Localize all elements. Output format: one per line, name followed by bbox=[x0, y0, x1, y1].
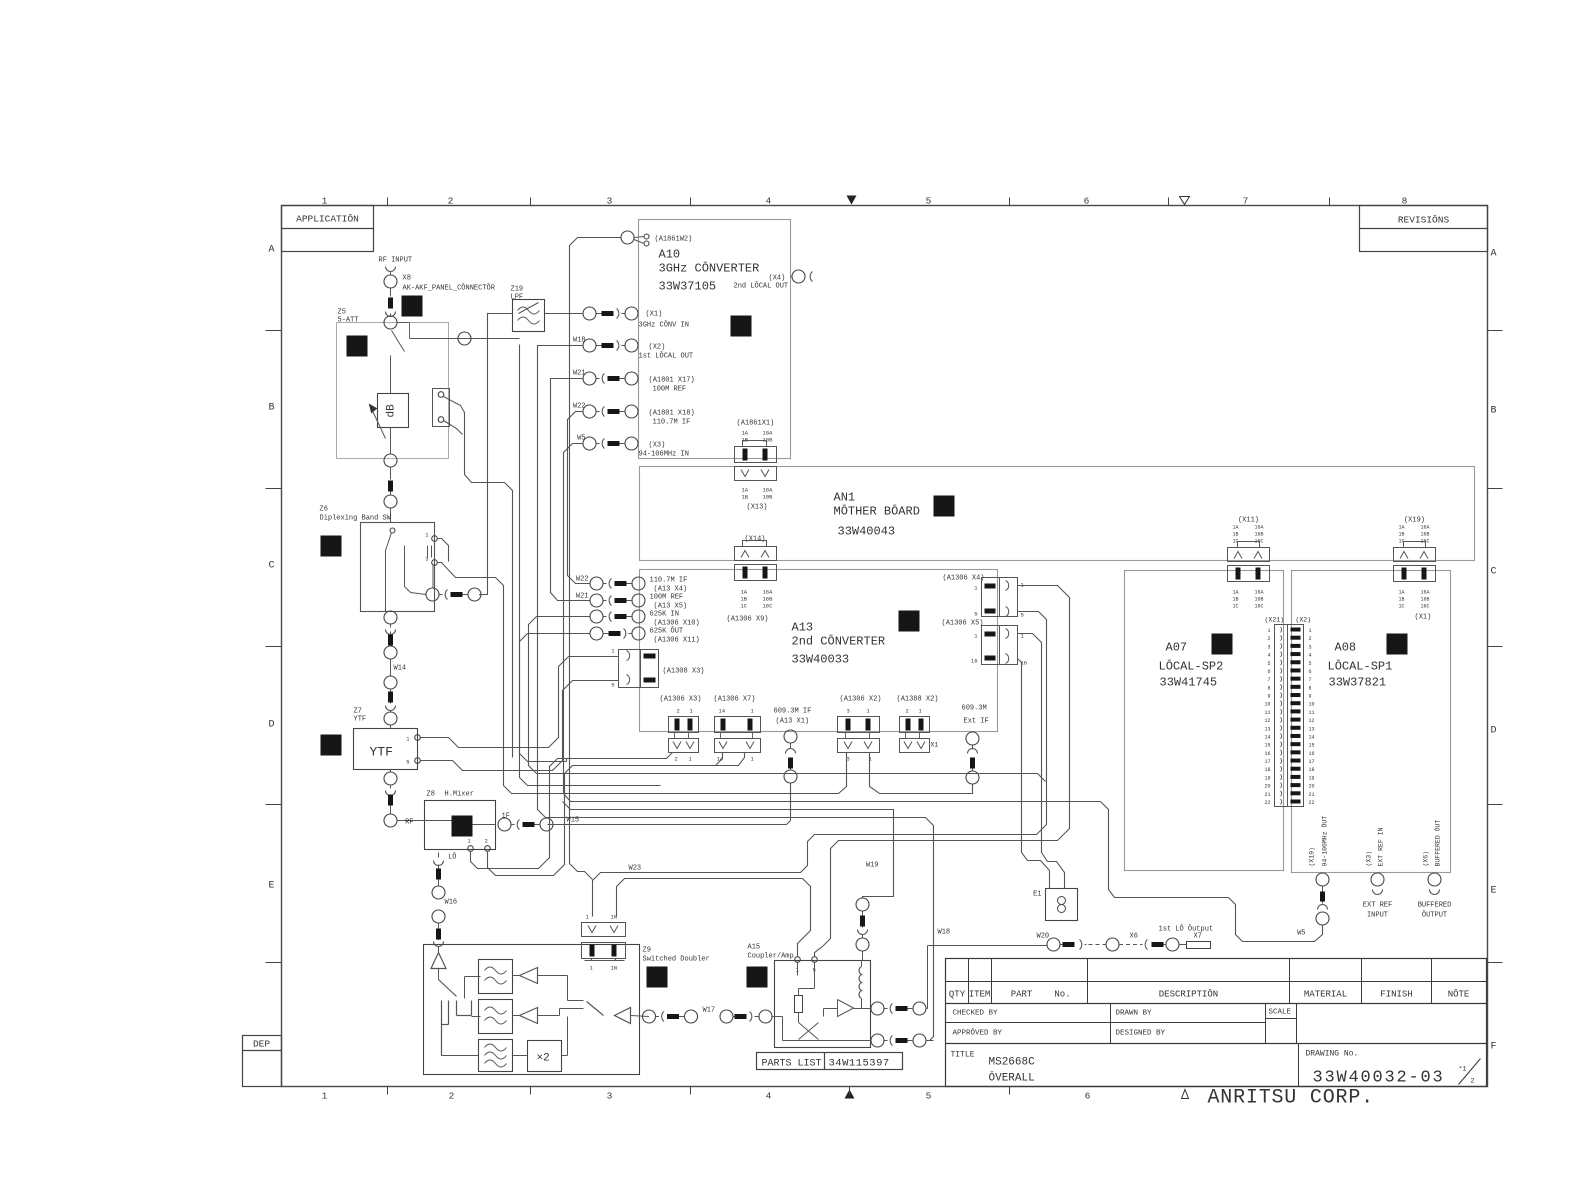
svg-text:SCALE: SCALE bbox=[1269, 1009, 1292, 1017]
svg-text:10: 10 bbox=[1264, 702, 1270, 708]
svg-text:1N: 1N bbox=[611, 965, 618, 972]
svg-text:14: 14 bbox=[1309, 734, 1315, 740]
svg-text:9: 9 bbox=[1267, 694, 1270, 700]
svg-text:16: 16 bbox=[1309, 751, 1315, 757]
svg-text:BUFFERED: BUFFERED bbox=[1418, 902, 1452, 910]
svg-text:10B: 10B bbox=[763, 494, 774, 501]
svg-text:11: 11 bbox=[1264, 710, 1270, 716]
svg-text:625K IN: 625K IN bbox=[650, 611, 679, 619]
svg-text:W18: W18 bbox=[938, 929, 951, 937]
svg-text:17: 17 bbox=[1264, 759, 1270, 765]
svg-text:1: 1 bbox=[322, 196, 328, 207]
svg-text:W20: W20 bbox=[1037, 933, 1050, 941]
svg-text:MS2668C: MS2668C bbox=[989, 1057, 1036, 1069]
svg-text:W5: W5 bbox=[577, 435, 585, 443]
svg-text:MATERIAL: MATERIAL bbox=[1304, 990, 1347, 1000]
svg-text:3: 3 bbox=[1309, 644, 1312, 650]
svg-text:1B: 1B bbox=[1399, 597, 1405, 603]
svg-text:1C: 1C bbox=[1399, 604, 1405, 610]
svg-text:C: C bbox=[1490, 567, 1496, 578]
svg-text:W23: W23 bbox=[629, 865, 642, 873]
svg-text:A: A bbox=[1490, 249, 1496, 260]
svg-text:APPLICATIŌN: APPLICATIŌN bbox=[296, 214, 359, 225]
svg-text:A08: A08 bbox=[1335, 641, 1357, 655]
svg-text:W22: W22 bbox=[576, 576, 589, 584]
svg-text:3: 3 bbox=[607, 1091, 613, 1102]
svg-text:LŌCAL-SP1: LŌCAL-SP1 bbox=[1328, 659, 1393, 674]
svg-text:C: C bbox=[268, 561, 274, 572]
svg-text:B: B bbox=[268, 403, 274, 414]
svg-text:1A: 1A bbox=[741, 589, 748, 596]
svg-text:1A: 1A bbox=[742, 487, 749, 494]
svg-text:(A1861X1): (A1861X1) bbox=[737, 420, 775, 428]
svg-text:(A13 X1): (A13 X1) bbox=[776, 718, 810, 726]
svg-text:PARTS LIST: PARTS LIST bbox=[762, 1059, 822, 1070]
svg-text:W16: W16 bbox=[445, 899, 458, 907]
svg-text:A13: A13 bbox=[792, 621, 814, 635]
svg-text:16B: 16B bbox=[1255, 597, 1264, 603]
svg-text:33W37821: 33W37821 bbox=[1329, 676, 1387, 690]
svg-text:EXT REF IN: EXT REF IN bbox=[1378, 827, 1385, 866]
svg-text:LŌ: LŌ bbox=[448, 853, 456, 862]
svg-text:15: 15 bbox=[1309, 743, 1315, 749]
svg-text:2: 2 bbox=[675, 756, 678, 763]
svg-text:REVISIŌNS: REVISIŌNS bbox=[1398, 215, 1450, 226]
svg-text:3GHz CŌNV IN: 3GHz CŌNV IN bbox=[639, 321, 689, 330]
svg-text:10A: 10A bbox=[763, 430, 774, 437]
svg-text:(X2): (X2) bbox=[649, 344, 666, 352]
svg-text:X7: X7 bbox=[1194, 933, 1202, 941]
svg-text:1A: 1A bbox=[1233, 525, 1239, 531]
svg-text:4: 4 bbox=[766, 196, 772, 207]
svg-text:W5: W5 bbox=[1297, 930, 1305, 938]
svg-text:(X1): (X1) bbox=[1415, 614, 1432, 622]
svg-text:22: 22 bbox=[1264, 800, 1270, 806]
svg-text:12: 12 bbox=[1264, 718, 1270, 724]
svg-text:W21: W21 bbox=[573, 370, 586, 378]
svg-text:APPRŌVED BY: APPRŌVED BY bbox=[953, 1029, 1003, 1038]
svg-text:33W37105: 33W37105 bbox=[659, 280, 717, 294]
svg-text:No.: No. bbox=[1054, 990, 1070, 1000]
svg-text:6: 6 bbox=[1084, 196, 1090, 207]
svg-text:16: 16 bbox=[971, 658, 978, 665]
svg-text:(A1306 X7): (A1306 X7) bbox=[714, 696, 756, 704]
svg-text:1A: 1A bbox=[742, 430, 749, 437]
svg-text:20: 20 bbox=[1309, 784, 1315, 790]
svg-text:14: 14 bbox=[1264, 734, 1270, 740]
svg-text:(A1306 X11): (A1306 X11) bbox=[654, 637, 700, 645]
svg-text:1B: 1B bbox=[741, 596, 748, 603]
svg-text:F: F bbox=[1490, 1042, 1496, 1053]
svg-text:2: 2 bbox=[448, 196, 454, 207]
svg-text:A07: A07 bbox=[1166, 641, 1188, 655]
svg-text:94-106MHz ŌUT: 94-106MHz ŌUT bbox=[1321, 816, 1329, 867]
svg-text:W17: W17 bbox=[703, 1007, 716, 1015]
svg-text:YTF: YTF bbox=[370, 745, 393, 760]
svg-text:5: 5 bbox=[611, 682, 614, 689]
svg-text:Z19: Z19 bbox=[511, 286, 524, 294]
svg-text:16A: 16A bbox=[1255, 525, 1264, 531]
svg-text:Z7: Z7 bbox=[354, 708, 362, 716]
svg-text:11: 11 bbox=[1309, 710, 1315, 716]
svg-text:YTF: YTF bbox=[354, 716, 367, 724]
svg-text:20: 20 bbox=[1264, 784, 1270, 790]
svg-text:Ext IF: Ext IF bbox=[964, 718, 989, 726]
svg-text:16C: 16C bbox=[1421, 604, 1430, 610]
svg-text:Diplexing Band SW: Diplexing Band SW bbox=[320, 515, 392, 523]
svg-text:2nd LŌCAL OUT: 2nd LŌCAL OUT bbox=[734, 282, 789, 291]
svg-text:1st LŌCAL OUT: 1st LŌCAL OUT bbox=[639, 352, 694, 361]
svg-text:16C: 16C bbox=[763, 603, 774, 610]
svg-text:1B: 1B bbox=[1233, 532, 1239, 538]
svg-text:2: 2 bbox=[1267, 636, 1270, 642]
svg-text:12: 12 bbox=[1309, 718, 1315, 724]
svg-text:(X2): (X2) bbox=[1296, 617, 1312, 624]
svg-text:21: 21 bbox=[1309, 792, 1315, 798]
svg-text:6: 6 bbox=[1267, 669, 1270, 675]
svg-text:QTY: QTY bbox=[949, 990, 966, 1000]
svg-text:H.Mixer: H.Mixer bbox=[445, 791, 474, 799]
svg-text:16A: 16A bbox=[1421, 590, 1430, 596]
svg-text:4: 4 bbox=[1267, 653, 1270, 659]
svg-text:33W40043: 33W40043 bbox=[838, 525, 896, 539]
svg-text:5: 5 bbox=[926, 1091, 932, 1102]
svg-text:5: 5 bbox=[974, 611, 977, 618]
svg-text:(X1): (X1) bbox=[646, 311, 663, 319]
svg-text:5-ATT: 5-ATT bbox=[338, 317, 359, 325]
svg-text:(X4): (X4) bbox=[769, 275, 786, 283]
svg-text:X8: X8 bbox=[403, 275, 411, 283]
svg-text:16: 16 bbox=[1264, 751, 1270, 757]
svg-text:Coupler/Amp: Coupler/Amp bbox=[748, 953, 794, 961]
svg-text:(A13 X5): (A13 X5) bbox=[654, 603, 688, 611]
svg-text:1C: 1C bbox=[741, 603, 748, 610]
svg-text:INPUT: INPUT bbox=[1367, 912, 1388, 920]
svg-text:PART: PART bbox=[1011, 990, 1033, 1000]
svg-text:(X3): (X3) bbox=[1366, 851, 1373, 867]
svg-text:EXT REF: EXT REF bbox=[1363, 902, 1392, 910]
svg-text:(A1306 X4): (A1306 X4) bbox=[943, 575, 985, 583]
svg-text:1A: 1A bbox=[1399, 590, 1405, 596]
svg-text:DRAWING No.: DRAWING No. bbox=[1306, 1050, 1359, 1059]
svg-text:110.7M IF: 110.7M IF bbox=[650, 577, 688, 585]
svg-text:18: 18 bbox=[1264, 767, 1270, 773]
svg-text:100M REF: 100M REF bbox=[653, 386, 687, 394]
svg-text:8: 8 bbox=[1309, 685, 1312, 691]
svg-text:1B: 1B bbox=[1233, 597, 1239, 603]
svg-text:9: 9 bbox=[1309, 694, 1312, 700]
svg-text:Z6: Z6 bbox=[320, 506, 328, 514]
svg-text:3: 3 bbox=[425, 556, 428, 563]
svg-text:7: 7 bbox=[1267, 677, 1270, 683]
svg-text:AK-AKF_PANEL_CŌNNECTŌR: AK-AKF_PANEL_CŌNNECTŌR bbox=[403, 284, 496, 293]
svg-text:MŌTHER BŌARD: MŌTHER BŌARD bbox=[834, 504, 920, 519]
svg-text:A15: A15 bbox=[748, 944, 761, 952]
svg-text:E: E bbox=[1490, 886, 1496, 897]
svg-text:W21: W21 bbox=[576, 593, 589, 601]
svg-text:33W40033: 33W40033 bbox=[792, 653, 850, 667]
svg-text:1A: 1A bbox=[1399, 525, 1405, 531]
svg-text:LŌCAL-SP2: LŌCAL-SP2 bbox=[1159, 659, 1224, 674]
svg-text:21: 21 bbox=[1264, 792, 1270, 798]
svg-text:LPF: LPF bbox=[511, 294, 524, 302]
svg-text:2: 2 bbox=[485, 838, 488, 845]
svg-text:X6: X6 bbox=[1130, 933, 1138, 941]
svg-text:Z5: Z5 bbox=[338, 309, 346, 317]
svg-text:(X11): (X11) bbox=[1238, 517, 1259, 525]
svg-text:(A1308 X3): (A1308 X3) bbox=[663, 668, 705, 676]
svg-text:CHECKED BY: CHECKED BY bbox=[953, 1010, 999, 1018]
svg-text:(A1306 X10): (A1306 X10) bbox=[654, 620, 700, 628]
svg-text:13: 13 bbox=[1264, 726, 1270, 732]
svg-text:Z9: Z9 bbox=[643, 947, 651, 955]
svg-text:A10: A10 bbox=[659, 248, 681, 262]
svg-text:609.3M IF: 609.3M IF bbox=[774, 708, 812, 716]
svg-text:34W115397: 34W115397 bbox=[829, 1058, 890, 1070]
svg-text:W18: W18 bbox=[573, 337, 586, 345]
svg-text:(A1801 X17): (A1801 X17) bbox=[649, 377, 695, 385]
svg-text:dB: dB bbox=[386, 404, 398, 418]
svg-text:110.7M IF: 110.7M IF bbox=[653, 419, 691, 427]
svg-text:16A: 16A bbox=[763, 589, 774, 596]
svg-text:DESIGNED BY: DESIGNED BY bbox=[1116, 1030, 1166, 1038]
svg-text:1A: 1A bbox=[1233, 590, 1239, 596]
svg-text:(A1388 X2): (A1388 X2) bbox=[897, 696, 939, 704]
svg-text:14: 14 bbox=[719, 708, 726, 715]
svg-text:(A1306 X5): (A1306 X5) bbox=[942, 620, 984, 628]
svg-text:8: 8 bbox=[1402, 196, 1408, 207]
svg-text:4: 4 bbox=[1309, 653, 1312, 659]
svg-text:2: 2 bbox=[677, 708, 680, 715]
svg-text:7: 7 bbox=[1243, 196, 1249, 207]
svg-text:10A: 10A bbox=[763, 487, 774, 494]
svg-text:FINISH: FINISH bbox=[1380, 990, 1412, 1000]
svg-text:D: D bbox=[268, 720, 274, 731]
svg-text:Z8: Z8 bbox=[427, 791, 435, 799]
svg-text:5: 5 bbox=[926, 196, 932, 207]
svg-text:3: 3 bbox=[847, 708, 850, 715]
svg-text:5: 5 bbox=[1309, 661, 1312, 667]
svg-text:16B: 16B bbox=[763, 596, 774, 603]
svg-text:W22: W22 bbox=[573, 403, 586, 411]
svg-text:22: 22 bbox=[1309, 800, 1315, 806]
svg-text:DESCRIPTIŌN: DESCRIPTIŌN bbox=[1159, 989, 1218, 1000]
svg-text:16A: 16A bbox=[1421, 525, 1430, 531]
svg-text:(X3): (X3) bbox=[649, 442, 666, 450]
svg-text:RF: RF bbox=[405, 819, 413, 827]
svg-text:1B: 1B bbox=[742, 494, 749, 501]
svg-text:2: 2 bbox=[1309, 636, 1312, 642]
svg-text:(A1861W2): (A1861W2) bbox=[655, 236, 693, 244]
svg-text:(A1306 X3): (A1306 X3) bbox=[660, 696, 702, 704]
svg-text:DRAWN BY: DRAWN BY bbox=[1116, 1010, 1153, 1018]
svg-text:W19: W19 bbox=[866, 862, 879, 870]
svg-text:19: 19 bbox=[1264, 775, 1270, 781]
svg-text:(A1306 X2): (A1306 X2) bbox=[840, 696, 882, 704]
svg-text:8: 8 bbox=[1267, 685, 1270, 691]
svg-text:AN1: AN1 bbox=[834, 491, 856, 505]
svg-text:BUFFERED ŌUT: BUFFERED ŌUT bbox=[1434, 820, 1442, 867]
svg-text:E1: E1 bbox=[1033, 891, 1041, 899]
svg-text:16B: 16B bbox=[1421, 532, 1430, 538]
svg-text:ANRITSU CORP.: ANRITSU CORP. bbox=[1208, 1087, 1374, 1110]
svg-text:3GHz CŌNVERTER: 3GHz CŌNVERTER bbox=[659, 261, 760, 276]
svg-text:625K ŌUT: 625K ŌUT bbox=[650, 627, 684, 636]
svg-text:1B: 1B bbox=[1399, 532, 1405, 538]
svg-text:(A13 X4): (A13 X4) bbox=[654, 586, 688, 594]
svg-text:100M REF: 100M REF bbox=[650, 594, 684, 602]
svg-text:2: 2 bbox=[1471, 1078, 1475, 1085]
svg-text:*1: *1 bbox=[1459, 1066, 1467, 1073]
svg-text:DEP: DEP bbox=[253, 1039, 270, 1050]
svg-text:RF INPUT: RF INPUT bbox=[379, 257, 413, 265]
svg-text:1C: 1C bbox=[1233, 604, 1239, 610]
svg-text:13: 13 bbox=[1309, 726, 1315, 732]
svg-text:33W41745: 33W41745 bbox=[1160, 676, 1218, 690]
svg-text:(X19): (X19) bbox=[1309, 847, 1316, 867]
svg-text:ITEM: ITEM bbox=[969, 990, 991, 1000]
svg-text:(X13): (X13) bbox=[747, 504, 768, 512]
svg-text:16A: 16A bbox=[1255, 590, 1264, 596]
svg-text:(X14): (X14) bbox=[745, 536, 766, 544]
svg-text:D: D bbox=[1490, 726, 1496, 737]
svg-text:5: 5 bbox=[406, 759, 409, 766]
svg-text:1st LŌ Ōutput: 1st LŌ Ōutput bbox=[1159, 925, 1214, 934]
svg-text:NŌTE: NŌTE bbox=[1448, 989, 1470, 1000]
svg-text:2nd CŌNVERTER: 2nd CŌNVERTER bbox=[792, 634, 886, 649]
svg-text:W14: W14 bbox=[394, 665, 407, 673]
svg-text:15: 15 bbox=[1264, 743, 1270, 749]
svg-text:3: 3 bbox=[607, 196, 613, 207]
svg-text:33W40032-03: 33W40032-03 bbox=[1313, 1069, 1445, 1088]
svg-text:5: 5 bbox=[1267, 661, 1270, 667]
svg-text:X1: X1 bbox=[931, 742, 939, 749]
svg-text:3: 3 bbox=[1267, 644, 1270, 650]
svg-text:16B: 16B bbox=[1421, 597, 1430, 603]
svg-text:18: 18 bbox=[1309, 767, 1315, 773]
svg-text:A: A bbox=[268, 245, 274, 256]
svg-text:1: 1 bbox=[1267, 628, 1270, 634]
svg-text:16B: 16B bbox=[1255, 532, 1264, 538]
svg-text:(A1306 X9): (A1306 X9) bbox=[727, 616, 769, 624]
svg-text:6: 6 bbox=[1085, 1091, 1091, 1102]
svg-text:609.3M: 609.3M bbox=[962, 705, 987, 713]
svg-text:2: 2 bbox=[906, 708, 909, 715]
svg-text:(X19): (X19) bbox=[1404, 517, 1425, 525]
svg-text:ŌUTPUT: ŌUTPUT bbox=[1422, 911, 1447, 920]
svg-text:1: 1 bbox=[322, 1091, 328, 1102]
svg-text:(X6): (X6) bbox=[1423, 851, 1430, 867]
svg-text:4: 4 bbox=[766, 1091, 772, 1102]
svg-text:19: 19 bbox=[1309, 775, 1315, 781]
svg-text:(A1801 X18): (A1801 X18) bbox=[649, 410, 695, 418]
svg-text:Switched Doubler: Switched Doubler bbox=[643, 956, 710, 964]
svg-text:ŌVERALL: ŌVERALL bbox=[989, 1072, 1035, 1085]
svg-text:7: 7 bbox=[1309, 677, 1312, 683]
svg-text:10: 10 bbox=[1309, 702, 1315, 708]
svg-text:5: 5 bbox=[1021, 612, 1024, 619]
svg-text:TITLE: TITLE bbox=[951, 1051, 975, 1060]
svg-text:94-106MHz IN: 94-106MHz IN bbox=[639, 451, 689, 459]
svg-text:E: E bbox=[268, 881, 274, 892]
svg-text:16C: 16C bbox=[1255, 604, 1264, 610]
svg-text:2: 2 bbox=[449, 1091, 455, 1102]
svg-text:×2: ×2 bbox=[537, 1053, 550, 1065]
svg-text:17: 17 bbox=[1309, 759, 1315, 765]
svg-text:B: B bbox=[1490, 406, 1496, 417]
svg-text:1: 1 bbox=[1309, 628, 1312, 634]
svg-text:(X21): (X21) bbox=[1265, 617, 1285, 624]
svg-text:6: 6 bbox=[1309, 669, 1312, 675]
